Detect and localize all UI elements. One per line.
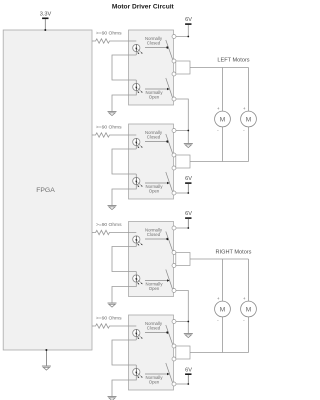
switch S3 NC contact: [145, 141, 167, 143]
pin 3 of relay module U3: [172, 166, 176, 170]
motor M (LEFT Motors 1): [215, 111, 231, 127]
pin 3 of relay module U5: [172, 357, 176, 361]
wire motor 2 top: [248, 68, 250, 112]
opto LED D6: [133, 275, 140, 282]
wire LED D3 cathode loop: [135, 146, 137, 149]
wire RIGHT Motors supply rail: [190, 258, 249, 260]
ground (LED chain 1): [108, 111, 117, 113]
wire LEFT Motors supply rail: [190, 67, 249, 69]
svg-text:6V: 6V: [185, 176, 192, 182]
wire motor 2 bottom: [248, 317, 250, 353]
wire motor 2 top: [248, 259, 250, 301]
wire motor 2 bottom: [248, 127, 250, 162]
svg-text:Closed: Closed: [147, 326, 161, 331]
svg-text:>=90 Ohms: >=90 Ohms: [96, 125, 122, 131]
svg-text:3.3V: 3.3V: [40, 11, 52, 17]
switch S2 NO contact: [145, 88, 168, 90]
switch S8 NO contact: [145, 373, 168, 375]
motor M (LEFT Motors 2): [241, 111, 257, 127]
svg-text:M: M: [220, 307, 226, 314]
opto LED D4: [133, 177, 140, 184]
switch S5 NC contact: [145, 238, 167, 240]
svg-text:+: +: [217, 106, 220, 111]
relay module U3 body: [129, 124, 174, 199]
motor M (RIGHT Motors 2): [241, 301, 257, 317]
svg-text:Open: Open: [149, 95, 160, 100]
wire into LED D8: [135, 365, 137, 368]
opto LED D1: [133, 44, 140, 51]
wire 6V to pin D2: [176, 192, 188, 194]
resistor R3: [95, 230, 111, 234]
wire resistor R1 to LED: [111, 40, 137, 42]
relay module U4 body: [129, 222, 174, 297]
svg-text:+: +: [243, 296, 246, 301]
switch S6 NO contact: [145, 280, 168, 282]
wire pin A2 to ground node: [176, 130, 188, 132]
relay module U2 body: [129, 30, 174, 105]
terminal box J3: [176, 253, 190, 266]
switch S1 NC contact: [145, 47, 167, 49]
switch S7 blade: [166, 325, 173, 346]
wire into LED D6: [135, 272, 137, 275]
switch S7 NC contact: [145, 332, 167, 334]
opto LED D3: [133, 138, 140, 145]
switch S3 blade: [166, 134, 173, 155]
svg-text:Motor Driver Circuit: Motor Driver Circuit: [112, 4, 175, 11]
svg-text:>=90 Ohms: >=90 Ohms: [96, 31, 122, 37]
wire into LED D2: [135, 80, 137, 83]
pin 3 of relay module U2: [172, 72, 176, 76]
switch S8 blade: [166, 363, 173, 384]
switch S1 blade: [166, 40, 173, 61]
svg-text:Open: Open: [149, 286, 160, 291]
svg-text:Open: Open: [149, 189, 160, 194]
wire FPGA to resistor R2: [92, 134, 95, 136]
pin 1 of relay module U2: [172, 35, 176, 39]
wire 6V to pin A3: [176, 227, 188, 229]
wire pin A4 to ground node: [176, 321, 188, 323]
pin 2 of relay module U2: [172, 59, 176, 63]
svg-text:M: M: [220, 117, 226, 124]
switch S2 blade: [166, 78, 173, 99]
svg-text:6V: 6V: [185, 367, 192, 373]
svg-text:6V: 6V: [185, 17, 192, 23]
wire FPGA to resistor R3: [92, 232, 95, 234]
wire resistor R2 to LED: [111, 134, 137, 136]
wire LED D2 to ground: [112, 91, 136, 112]
svg-text:6V: 6V: [185, 211, 192, 217]
svg-text:>=90 Ohms: >=90 Ohms: [96, 222, 122, 228]
switch S6 blade: [166, 270, 173, 291]
wire resistor R4 to LED: [111, 325, 137, 327]
wire pin D3 to ground: [176, 291, 188, 334]
wire LED D1 cathode loop: [135, 52, 137, 55]
svg-text:Open: Open: [149, 380, 160, 385]
wire FPGA to ground: [45, 350, 47, 366]
opto LED D5: [133, 236, 140, 243]
node junction motor 1 top: [222, 68, 224, 112]
svg-text:M: M: [246, 117, 252, 124]
pin 1 of relay module U3: [172, 129, 176, 133]
pin 4 of relay module U5: [172, 382, 176, 386]
wire pin A1 to 6V: [176, 25, 188, 37]
wire FPGA to resistor R4: [92, 325, 95, 327]
terminal box J1: [176, 61, 190, 74]
wire motor 1 bottom: [222, 317, 224, 353]
pin 2 of relay module U5: [172, 344, 176, 348]
opto LED D8: [133, 368, 140, 375]
wire LED D7 cathode loop: [135, 337, 137, 340]
pin 3 of relay module U4: [172, 264, 176, 268]
ground (relay bus 2): [184, 333, 193, 335]
switch S4 blade: [166, 172, 173, 193]
svg-text:M: M: [246, 307, 252, 314]
wire into LED D4: [135, 174, 137, 177]
svg-text:+: +: [217, 296, 220, 301]
svg-text:Closed: Closed: [147, 135, 161, 140]
ground (LED chain 3): [108, 302, 117, 304]
terminal box J4: [176, 346, 190, 359]
FPGA U1 block: [3, 30, 92, 350]
pin 4 of relay module U2: [172, 97, 176, 101]
ground (LED chain 2): [108, 205, 117, 207]
wire LED D4 to ground: [112, 185, 136, 206]
wire resistor R3 to LED: [111, 232, 137, 234]
svg-text:Closed: Closed: [147, 41, 161, 46]
wire FPGA to resistor R1: [92, 40, 95, 42]
svg-text:LEFT Motors: LEFT Motors: [217, 58, 249, 64]
svg-text:FPGA: FPGA: [36, 187, 55, 194]
resistor R1: [95, 39, 111, 43]
switch S4 NO contact: [145, 182, 168, 184]
svg-text:+: +: [243, 106, 246, 111]
svg-text:RIGHT Motors: RIGHT Motors: [216, 249, 252, 255]
wire RIGHT Motors return rail: [190, 352, 249, 354]
pin 2 of relay module U4: [172, 251, 176, 255]
wire LED D5 cathode loop: [135, 243, 137, 246]
pin 1 of relay module U5: [172, 320, 176, 324]
node junction motor 1 top: [222, 259, 224, 301]
opto LED D2: [133, 83, 140, 90]
opto LED D7: [133, 329, 140, 336]
ground (FPGA): [42, 365, 51, 367]
switch S5 blade: [166, 232, 173, 253]
pin 1 of relay module U4: [172, 226, 176, 230]
ground (relay bus 1): [184, 143, 193, 145]
wire LED D6 to ground: [112, 282, 136, 303]
wire LEFT Motors return rail: [190, 161, 249, 163]
resistor R2: [95, 133, 111, 137]
ground (LED chain 4): [108, 396, 117, 398]
pin 4 of relay module U4: [172, 289, 176, 293]
resistor R4: [95, 324, 111, 328]
wire LED D8 to ground: [112, 376, 136, 397]
pin 4 of relay module U3: [172, 191, 176, 195]
svg-text:>=90 Ohms: >=90 Ohms: [96, 316, 122, 322]
wire pin D1 to ground: [176, 99, 188, 144]
relay module U5 body: [129, 315, 174, 390]
motor M (RIGHT Motors 1): [215, 301, 231, 317]
wire motor 1 bottom: [222, 127, 224, 162]
wire 6V to pin D4: [176, 383, 188, 385]
pin 2 of relay module U3: [172, 153, 176, 157]
svg-text:Closed: Closed: [147, 232, 161, 237]
terminal box J2: [176, 155, 190, 168]
